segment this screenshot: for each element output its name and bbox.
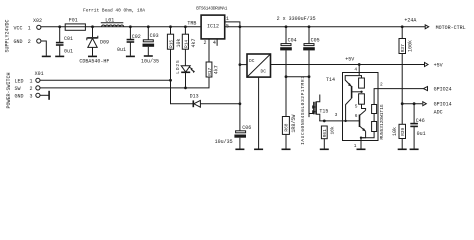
- svg-text:1: 1: [226, 16, 229, 22]
- svg-text:3: 3: [30, 93, 33, 99]
- DC/DC converter: [240, 54, 271, 149]
- svg-text:R68: R68: [283, 123, 289, 131]
- NPN base bar: [359, 115, 361, 128]
- svg-text:10u/35: 10u/35: [215, 139, 233, 145]
- svg-text:DC: DC: [249, 58, 255, 64]
- wire IC12 pin2: [208, 39, 210, 62]
- resistor R14: [182, 27, 197, 66]
- transistor array T14: [326, 65, 385, 150]
- node C04 junction: [285, 25, 288, 28]
- svg-text:R17: R17: [207, 67, 213, 75]
- svg-text:C01: C01: [64, 36, 73, 42]
- svg-text:BTS6143DRUMA1: BTS6143DRUMA1: [196, 7, 228, 12]
- node pin1/pin5 junction: [239, 25, 242, 28]
- node R15 junction: [169, 25, 172, 28]
- svg-text:POWER-SWITCH: POWER-SWITCH: [6, 72, 12, 108]
- ground: [144, 55, 153, 57]
- svg-text:D13: D13: [190, 94, 199, 100]
- svg-text:1: 1: [30, 78, 33, 84]
- capacitor C01: [56, 27, 73, 56]
- svg-text:100k: 100k: [407, 40, 413, 52]
- ground: [235, 148, 244, 150]
- node C01 junction: [58, 25, 61, 28]
- svg-text:GPIO14: GPIO14: [434, 102, 452, 108]
- pin +5V arrow: [425, 63, 443, 69]
- wire X02 GND to ground: [41, 41, 46, 56]
- svg-text:GPIO24: GPIO24: [434, 87, 452, 93]
- svg-text:R15: R15: [168, 40, 174, 48]
- PNP collector down: [346, 98, 352, 121]
- ground: [282, 148, 291, 150]
- connector X02: [14, 18, 43, 45]
- wire down to D13: [171, 80, 194, 104]
- svg-text:10u/35: 10u/35: [141, 58, 159, 64]
- pin GPIO14 arrow: [423, 102, 452, 116]
- capacitor C02: [117, 27, 141, 56]
- svg-text:1: 1: [28, 25, 31, 31]
- NPN collector diagonal: [360, 110, 366, 115]
- svg-text:5: 5: [226, 23, 229, 29]
- node T14 pin4 junction: [358, 63, 361, 66]
- capacitor C04 polarized: [280, 27, 296, 117]
- svg-text:2: 2: [380, 82, 383, 88]
- ground: [410, 148, 419, 150]
- capacitor C03 polarized: [141, 27, 159, 65]
- node D09 junction: [91, 25, 94, 28]
- wire +24 rail left: [41, 26, 201, 28]
- emitter to pin1: [361, 131, 366, 148]
- resistor R15: [167, 27, 181, 81]
- fuse F01: [65, 18, 85, 31]
- svg-text:GND: GND: [15, 93, 24, 99]
- capacitor C46: [410, 104, 425, 149]
- svg-text:10k: 10k: [330, 126, 336, 134]
- svg-text:0u1: 0u1: [117, 47, 126, 53]
- wire cap bottoms tie: [286, 76, 309, 78]
- svg-text:6: 6: [355, 113, 358, 119]
- right column resistor lower: [372, 122, 377, 132]
- svg-text:LED: LED: [15, 78, 24, 84]
- NPN emitter diagonal: [360, 126, 366, 131]
- ground: [254, 148, 263, 150]
- ground: [42, 55, 51, 57]
- svg-text:4k7: 4k7: [191, 38, 197, 47]
- IC U high-side switch IC12: [196, 7, 228, 39]
- svg-text:+24A: +24A: [404, 17, 416, 23]
- NPN base lead: [343, 120, 360, 122]
- wire IC12 pin4: [216, 39, 218, 46]
- wire GPIO14 net: [402, 103, 422, 105]
- node C46 junction: [413, 102, 416, 105]
- svg-text:3: 3: [335, 112, 338, 118]
- svg-text:F01: F01: [69, 18, 78, 24]
- svg-text:T14: T14: [326, 77, 335, 83]
- resistor lower: [359, 94, 365, 104]
- capacitor C05 polarized: [303, 27, 319, 117]
- svg-text:5: 5: [355, 103, 358, 109]
- emitter branch upper PNP: [345, 76, 359, 87]
- resistor R37: [399, 27, 413, 104]
- ground: [357, 148, 366, 150]
- svg-text:CDBA540-HF: CDBA540-HF: [79, 58, 109, 64]
- svg-text:C06: C06: [242, 125, 251, 131]
- ground: [55, 55, 64, 57]
- wire +24 vertical node: [239, 27, 241, 131]
- svg-text:VCC: VCC: [14, 25, 23, 31]
- svg-text:GND: GND: [14, 39, 23, 45]
- svg-text:R37: R37: [400, 44, 406, 52]
- transistor T15 MOSFET: [309, 77, 328, 121]
- inductor L01: [101, 17, 124, 27]
- pin MOTOR-CTRL arrow: [425, 25, 465, 31]
- ground: [88, 55, 97, 57]
- node R37 junction: [401, 25, 404, 28]
- svg-text:R61: R61: [322, 129, 328, 137]
- wire +24 rail right: [225, 26, 425, 28]
- svg-text:TRB: TRB: [187, 20, 196, 26]
- node C03 junction: [147, 25, 150, 28]
- ground: [126, 55, 135, 57]
- wire IC12 pin1: [225, 22, 240, 27]
- resistor R39: [392, 104, 406, 149]
- svg-text:SW: SW: [15, 86, 21, 92]
- resistor R17: [206, 62, 219, 88]
- svg-text:MOTOR-CTRL: MOTOR-CTRL: [436, 25, 466, 31]
- ground: [398, 148, 407, 150]
- svg-text:SUPPLY24VDC: SUPPLY24VDC: [5, 19, 11, 52]
- svg-text:R14: R14: [183, 40, 189, 48]
- svg-text:ADC: ADC: [434, 110, 443, 116]
- svg-text:C02: C02: [132, 34, 141, 40]
- svg-text:2: 2: [28, 39, 31, 45]
- resistor R68: [282, 115, 297, 149]
- node sense junction: [323, 120, 326, 123]
- connector X01: [15, 71, 44, 99]
- PNP base bar: [351, 86, 353, 98]
- wire pin2 to GPIO24: [378, 88, 424, 90]
- svg-text:C04: C04: [288, 38, 297, 44]
- svg-text:0u1: 0u1: [417, 131, 426, 137]
- lower resistor to NPN collector: [362, 104, 366, 110]
- node tie right: [308, 75, 311, 78]
- svg-text:X02: X02: [33, 18, 42, 24]
- capacitor C06 polarized: [215, 125, 252, 149]
- wire +5V rail: [271, 64, 425, 66]
- right column resistor upper: [372, 105, 377, 114]
- svg-text:IC12: IC12: [207, 24, 219, 30]
- svg-text:4: 4: [213, 40, 216, 46]
- resistor upper: [359, 76, 361, 78]
- node R39 junction: [401, 102, 404, 105]
- node tie left: [285, 75, 288, 78]
- svg-text:2: 2: [30, 86, 33, 92]
- diode D13: [190, 94, 240, 108]
- ground: [48, 91, 50, 100]
- node D13/vertical junction: [239, 102, 242, 105]
- svg-text:0u1: 0u1: [64, 48, 73, 54]
- svg-text:2 x 3300uF/35: 2 x 3300uF/35: [277, 16, 316, 22]
- svg-text:MUN5312DW1T1G: MUN5312DW1T1G: [379, 104, 385, 139]
- svg-text:2: 2: [204, 40, 207, 46]
- base to resistor junction: [352, 91, 362, 93]
- resistor sense 10k: [321, 126, 335, 149]
- svg-text:1: 1: [354, 143, 357, 149]
- svg-text:LD25: LD25: [175, 59, 181, 73]
- svg-text:DC: DC: [261, 69, 267, 75]
- node DC/DC input junction: [239, 63, 242, 66]
- svg-text:1R8/5W: 1R8/5W: [291, 115, 297, 133]
- svg-text:10k: 10k: [392, 127, 398, 136]
- svg-text:Ferrit Bead 40 Ohm, 10A: Ferrit Bead 40 Ohm, 10A: [83, 8, 145, 14]
- pin GPIO24 arrow: [423, 87, 451, 93]
- svg-text:+5V: +5V: [434, 63, 443, 69]
- svg-text:X01: X01: [35, 71, 44, 77]
- svg-text:C03: C03: [150, 33, 159, 39]
- svg-text:+5V: +5V: [345, 57, 354, 63]
- wire X01 GND to ground: [40, 94, 49, 96]
- ground: [320, 148, 329, 150]
- wire X01 pin1 net: [40, 79, 171, 81]
- svg-text:R39: R39: [400, 127, 406, 135]
- node C02 junction: [129, 25, 132, 28]
- node R14 junction: [184, 25, 187, 28]
- svg-text:10k: 10k: [176, 38, 182, 47]
- LED LD25: [175, 59, 195, 87]
- svg-text:C05: C05: [311, 38, 320, 44]
- svg-text:IAUC60N04S6L032P1TMR1: IAUC60N04S6L032P1TMR1: [300, 76, 306, 145]
- svg-text:T15: T15: [319, 109, 328, 115]
- svg-text:D09: D09: [100, 40, 109, 46]
- svg-text:4k7: 4k7: [213, 65, 219, 74]
- wire T15 source to pin3: [319, 120, 342, 122]
- wire X01 pin2 net: [40, 77, 209, 88]
- svg-text:4: 4: [354, 67, 357, 73]
- node pin1/R15 junction: [169, 79, 172, 82]
- node C05 junction: [308, 25, 311, 28]
- node LD25 junction: [184, 87, 187, 90]
- diode D09: [79, 27, 109, 65]
